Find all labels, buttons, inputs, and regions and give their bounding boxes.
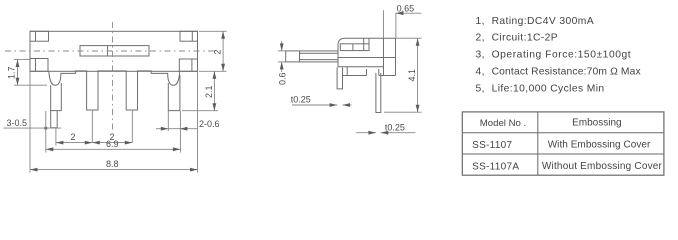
dimension 1.7 — [7, 60, 48, 86]
dimension 3-0.5 leader — [3, 118, 61, 130]
svg-text:Embossing: Embossing — [572, 117, 621, 128]
front view left mounting leg — [51, 83, 62, 111]
side view body left edge lower segment — [337, 62, 339, 68]
svg-text:t0.25: t0.25 — [291, 94, 311, 104]
svg-text:Circuit:1C-2P: Circuit:1C-2P — [492, 33, 558, 44]
svg-text:2: 2 — [71, 132, 76, 142]
svg-text:3-0.5: 3-0.5 — [7, 118, 28, 128]
dimension t0.25 right — [356, 123, 415, 135]
specification list — [476, 16, 642, 95]
dimension 2-0.6 — [156, 111, 220, 131]
dimension 8.8 — [30, 72, 198, 173]
dimension 6.9 — [46, 111, 181, 153]
svg-text:SS-1107: SS-1107 — [472, 140, 512, 151]
svg-text:8.8: 8.8 — [106, 159, 119, 169]
front view body outline — [30, 31, 198, 71]
svg-text:SS-1107A: SS-1107A — [472, 162, 519, 173]
dimension 2.1 — [182, 71, 218, 110]
front view terminal pin 2 — [91, 110, 93, 143]
svg-text:2.1: 2.1 — [204, 85, 214, 98]
svg-text:Contact Resistance:70m Ω Max: Contact Resistance:70m Ω Max — [492, 67, 642, 78]
svg-text:Life:10,000 Cycles Min: Life:10,000 Cycles Min — [492, 84, 605, 95]
front view top-right corner notch — [180, 31, 198, 41]
model table — [462, 112, 664, 175]
front view base outline with pin bases — [49, 71, 180, 110]
vertical centerline — [112, 22, 114, 133]
side view body outline — [338, 38, 396, 75]
side view terminal pin — [376, 73, 381, 113]
side view base blocks — [343, 67, 396, 76]
side view base top line — [338, 66, 384, 68]
svg-text:1.7: 1.7 — [7, 66, 17, 79]
side view actuator shaft — [286, 51, 338, 62]
dimension 4.1 — [384, 38, 422, 112]
horizontal centerline — [5, 50, 214, 52]
svg-text:Model No .: Model No . — [480, 118, 526, 129]
svg-text:Without Embossing Cover: Without Embossing Cover — [542, 161, 663, 172]
svg-text:t0.25: t0.25 — [385, 123, 405, 133]
front view bottom-left corner notch — [30, 59, 48, 72]
svg-text:2-0.6: 2-0.6 — [199, 119, 220, 129]
dimension 2 (pin pitch right) — [92, 132, 132, 145]
svg-text:4,: 4, — [476, 67, 485, 78]
svg-text:5,: 5, — [476, 84, 485, 95]
svg-text:0.6: 0.6 — [277, 72, 287, 85]
dimension t0.25 left — [291, 94, 352, 107]
svg-text:0.65: 0.65 — [397, 3, 415, 13]
dimension 2 (body height) — [199, 31, 227, 71]
dimension 0.65 — [384, 3, 422, 38]
front view bottom-right corner notch — [179, 59, 197, 71]
svg-text:With Embossing Cover: With Embossing Cover — [548, 140, 651, 151]
svg-text:2: 2 — [213, 49, 223, 54]
dimension 2 (pin pitch left) — [56, 129, 92, 146]
front view terminal pin 1 — [51, 111, 58, 128]
dimension 0.6 — [277, 41, 287, 85]
front view right mounting leg — [168, 75, 180, 111]
side view knob — [340, 38, 369, 50]
side view bent leg — [337, 68, 342, 89]
front view top-left corner notch — [30, 31, 49, 41]
side view horizontal seam — [338, 57, 396, 59]
svg-text:4.1: 4.1 — [407, 69, 417, 82]
svg-text:3,: 3, — [476, 50, 485, 61]
front view slider knob — [80, 46, 149, 56]
svg-text:6.9: 6.9 — [106, 139, 119, 149]
svg-text:Rating:DC4V 300mA: Rating:DC4V 300mA — [492, 16, 594, 27]
front view terminal pin 3 — [131, 110, 133, 143]
svg-text:2,: 2, — [476, 33, 485, 44]
side view inner vertical seam — [383, 38, 385, 75]
svg-text:1,: 1, — [476, 16, 485, 27]
svg-text:Operating Force:150±100gt: Operating Force:150±100gt — [492, 50, 632, 61]
